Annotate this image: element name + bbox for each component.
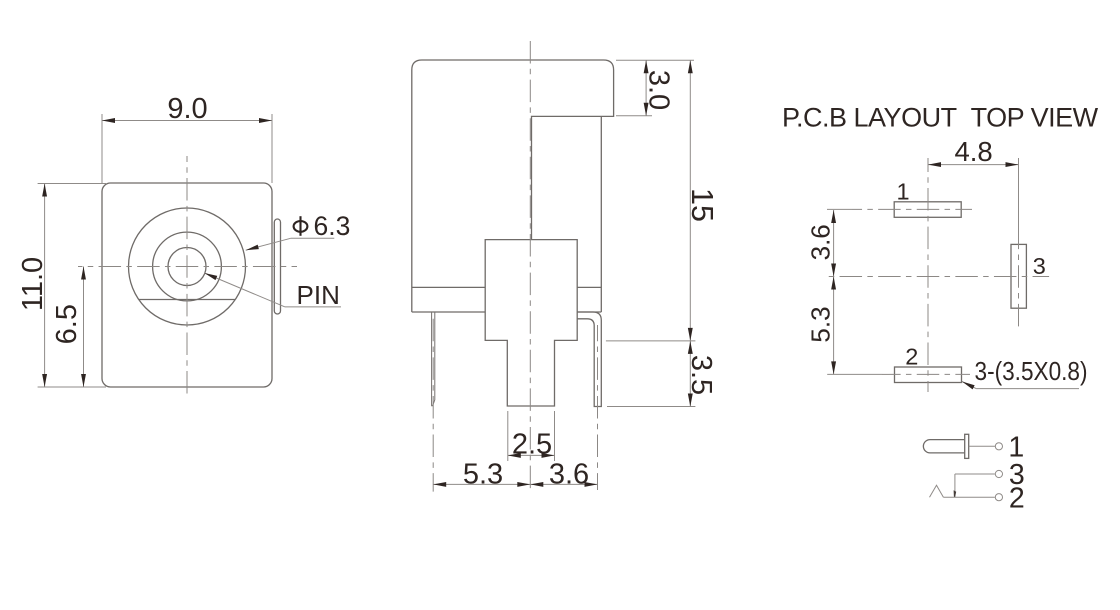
svg-text:6.3: 6.3	[314, 211, 351, 241]
dim 3.0 dimension line	[645, 60, 647, 115]
dim 3.5 arrows	[688, 341, 693, 354]
svg-text:1: 1	[896, 178, 909, 204]
dim 2.5 extension lines	[507, 411, 509, 461]
dim 15 arrows	[688, 60, 693, 73]
schematic switch contact tick	[954, 490, 957, 497]
dim 6.5 arrows	[81, 267, 86, 280]
schematic switch wire	[954, 474, 956, 497]
side view right pin centerline	[597, 325, 599, 490]
pcb pad 3 extension line	[1018, 158, 1020, 244]
schematic pin 3 lead	[955, 473, 995, 475]
dim pcb 5.3 extension line	[827, 373, 882, 375]
pcb pad 2 centerline	[882, 373, 970, 375]
schematic pin 1 plate	[965, 434, 969, 458]
dim pcb 3.6 arrows	[831, 210, 836, 223]
svg-text:9.0: 9.0	[167, 93, 207, 125]
svg-text:5.3: 5.3	[463, 459, 503, 491]
svg-text:3.5: 3.5	[685, 355, 717, 395]
pcb pad 3	[1011, 244, 1026, 308]
svg-text:11.0: 11.0	[17, 257, 49, 311]
schematic pin 1 terminal circle	[995, 443, 1002, 450]
pcb pad note arrow	[962, 382, 975, 390]
dim 3.6 arrows	[530, 482, 543, 487]
side view body outline	[412, 60, 614, 312]
dim pcb 5.3 arrows	[831, 277, 836, 290]
pcb pad 3 centerline	[1018, 244, 1020, 327]
label φ6.3 phi symbol	[294, 221, 308, 232]
pcb vertical centerline	[927, 158, 929, 392]
schematic pin 2 terminal circle	[995, 494, 1002, 501]
side view right bent pin	[577, 312, 601, 407]
svg-text:3-(3.5X0.8): 3-(3.5X0.8)	[975, 358, 1088, 386]
schematic pin 3 terminal circle	[995, 470, 1002, 477]
side view flange line right	[577, 286, 601, 288]
side view left pin centerline	[432, 316, 434, 492]
dim pcb 5.3 dimension line	[833, 277, 835, 375]
dim 2.5 arrows	[508, 453, 521, 458]
pcb pad note leader	[962, 382, 976, 389]
schematic pin 1 barrel	[923, 440, 964, 453]
svg-text:4.8: 4.8	[954, 136, 992, 167]
pcb pad 2	[895, 367, 962, 383]
dim 3.5 extension lines	[606, 340, 696, 342]
side view body bottom right	[577, 311, 601, 313]
label PIN arrow	[204, 273, 217, 280]
schematic pin 2 spring contact	[930, 485, 944, 497]
dim 3.0 extension lines	[616, 59, 694, 61]
svg-text:2: 2	[905, 344, 918, 370]
dim 2.5 dimension line	[508, 454, 555, 456]
dim 5.3 3.6 dimension line	[433, 483, 597, 485]
svg-text:3.0: 3.0	[643, 70, 675, 110]
schematic pin 2 lead	[943, 496, 995, 498]
side view left pin	[432, 312, 435, 406]
svg-text:PIN: PIN	[297, 280, 340, 310]
dim 15 dimension line	[689, 60, 691, 341]
dim 9.0 arrows	[102, 118, 115, 123]
front view vertical centerline	[186, 156, 188, 397]
svg-text:3.6: 3.6	[806, 224, 836, 260]
dim 6.5 dimension line	[83, 267, 85, 388]
front view middle circle	[153, 232, 222, 301]
front view outer circle φ6.3	[129, 208, 246, 325]
svg-text:P.C.B LAYOUT TOP VIEW: P.C.B LAYOUT TOP VIEW	[782, 102, 1099, 132]
dim 4.8 arrows	[928, 162, 941, 167]
pcb pad 1 centerline	[827, 208, 852, 210]
dim 11.0 arrows	[42, 184, 47, 197]
dim 9.0 extension lines	[101, 114, 103, 183]
dim 5.3 arrows	[433, 482, 446, 487]
pcb pad 1	[894, 202, 961, 218]
side view body bottom left	[412, 311, 485, 313]
side view flange line left	[412, 286, 485, 288]
svg-text:3.6: 3.6	[549, 459, 589, 491]
label PIN leader	[204, 273, 285, 307]
dim 4.8 dimension line	[928, 164, 1019, 166]
front view center pin circle	[168, 248, 206, 286]
svg-text:2: 2	[1009, 483, 1025, 515]
svg-text:3: 3	[1033, 253, 1046, 279]
pcb horizontal centerline	[825, 276, 1049, 278]
dim 3.0 arrows	[644, 60, 649, 73]
dim 11.0 extension lines	[38, 183, 106, 185]
dim pcb 3.6 dimension line	[833, 210, 835, 277]
side view vertical centerline	[529, 41, 531, 492]
schematic pin 1 lead	[969, 445, 996, 447]
svg-text:6.5: 6.5	[51, 304, 83, 344]
dim 11.0 dimension line	[44, 184, 46, 388]
svg-text:5.3: 5.3	[806, 306, 836, 342]
front view side tab	[274, 219, 280, 314]
front view chord line	[139, 299, 235, 301]
label φ6.3 arrow	[246, 245, 259, 251]
dim 3.5 dimension line	[689, 341, 691, 407]
svg-text:15: 15	[685, 188, 719, 222]
front view body outline	[102, 183, 272, 387]
front view horizontal centerline	[78, 266, 297, 268]
side view center block	[485, 240, 577, 406]
svg-text:2.5: 2.5	[512, 429, 552, 461]
dim 9.0 dimension line	[102, 120, 272, 122]
label φ6.3 leader	[246, 238, 291, 250]
